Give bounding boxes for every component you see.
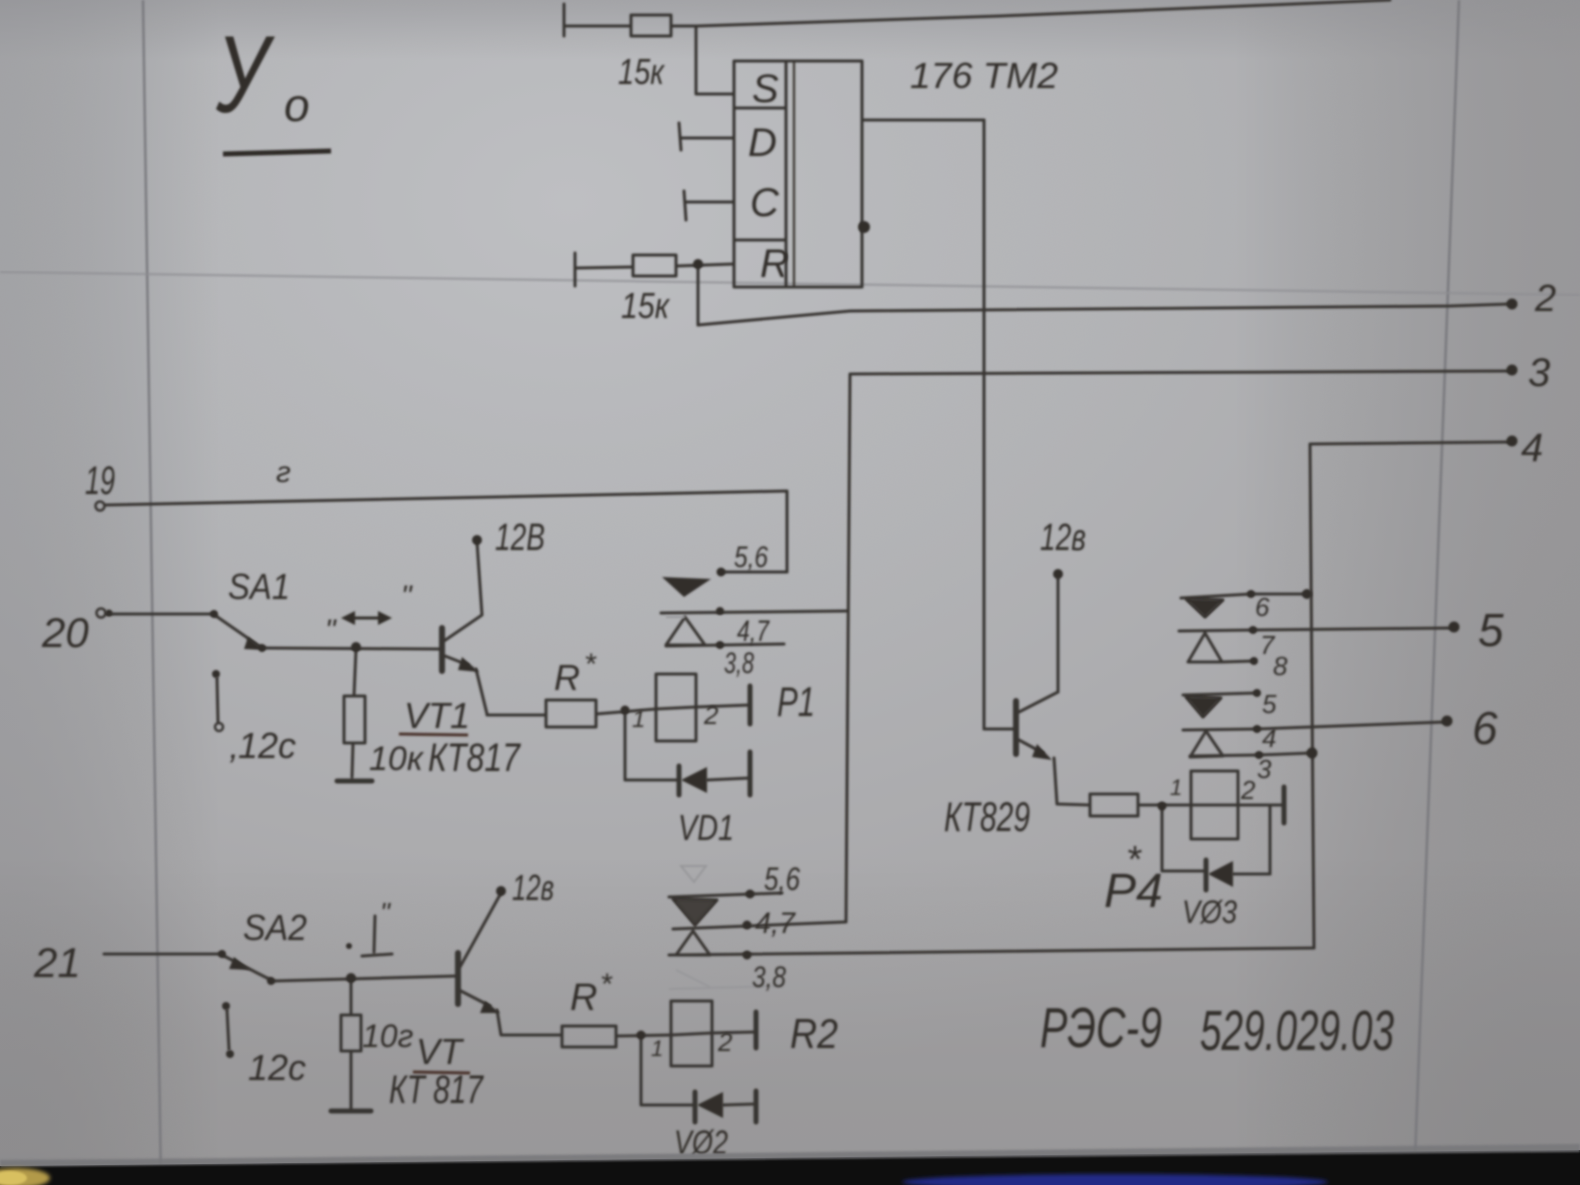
svg-text:г: г [276, 456, 291, 489]
svg-text:12в: 12в [512, 867, 554, 908]
svg-text:КТ829: КТ829 [944, 793, 1030, 840]
svg-text:19: 19 [85, 459, 115, 503]
svg-text:КТ817: КТ817 [428, 736, 521, 780]
svg-text:1: 1 [632, 706, 645, 733]
svg-text:": " [380, 897, 391, 928]
svg-text:176 ТМ2: 176 ТМ2 [910, 55, 1058, 96]
svg-text:S: S [752, 67, 779, 111]
svg-text:6: 6 [1255, 592, 1270, 622]
svg-text:15к: 15к [618, 51, 666, 92]
svg-text:R: R [570, 977, 597, 1019]
svg-text:": " [325, 614, 337, 647]
svg-text:10к: 10к [369, 740, 425, 778]
svg-text:5,6: 5,6 [734, 541, 768, 574]
svg-text:8: 8 [1273, 651, 1288, 681]
svg-text:2: 2 [1534, 278, 1556, 320]
svg-text:У: У [215, 12, 275, 136]
svg-text:3,8: 3,8 [752, 961, 786, 994]
svg-text:C: C [750, 181, 780, 225]
svg-text:РЭС-9: РЭС-9 [1040, 996, 1162, 1060]
svg-text:3: 3 [1257, 754, 1272, 784]
svg-text:21: 21 [33, 939, 81, 986]
svg-text:VT1: VT1 [404, 695, 470, 736]
svg-text:D: D [748, 121, 777, 165]
svg-text:1: 1 [651, 1036, 663, 1061]
svg-text:SA1: SA1 [228, 566, 290, 607]
svg-text:12с: 12с [248, 1047, 306, 1088]
svg-text:20: 20 [41, 609, 89, 656]
svg-text:2: 2 [703, 700, 719, 730]
svg-text:R2: R2 [790, 1010, 838, 1057]
svg-text:5: 5 [1262, 689, 1277, 719]
svg-text:4: 4 [1262, 723, 1276, 753]
svg-text:4: 4 [1521, 426, 1543, 470]
svg-text:15к: 15к [621, 285, 671, 326]
svg-text:2: 2 [1240, 775, 1256, 805]
svg-text:КТ 817: КТ 817 [389, 1068, 484, 1112]
svg-text:12в: 12в [1040, 517, 1086, 559]
svg-text:1: 1 [1170, 775, 1182, 800]
svg-text:‚12с: ‚12с [229, 725, 296, 766]
svg-text:529.029.03: 529.029.03 [1200, 999, 1394, 1063]
svg-text:3,8: 3,8 [724, 647, 754, 680]
svg-text:12В: 12В [495, 517, 545, 559]
svg-text:о: о [284, 79, 310, 131]
svg-text:4,7: 4,7 [755, 907, 796, 940]
svg-text:VD1: VD1 [678, 807, 734, 848]
svg-text:P1: P1 [777, 678, 815, 725]
svg-text:R: R [554, 657, 580, 698]
svg-text:4,7: 4,7 [737, 615, 770, 648]
svg-text:5: 5 [1478, 604, 1504, 656]
svg-text:VT: VT [416, 1031, 465, 1072]
svg-text:*: * [584, 648, 597, 681]
svg-text:6: 6 [1472, 702, 1498, 754]
svg-text:": " [401, 580, 413, 613]
svg-text:3: 3 [1528, 351, 1550, 395]
svg-text:10г: 10г [362, 1018, 414, 1054]
svg-text:5,6: 5,6 [764, 861, 800, 897]
svg-text:*: * [600, 968, 613, 1001]
svg-text:R: R [760, 242, 789, 286]
svg-text:2: 2 [717, 1027, 733, 1057]
svg-text:SA2: SA2 [243, 907, 307, 948]
svg-text:VØ3: VØ3 [1182, 894, 1237, 930]
svg-text:*: * [1126, 839, 1142, 881]
